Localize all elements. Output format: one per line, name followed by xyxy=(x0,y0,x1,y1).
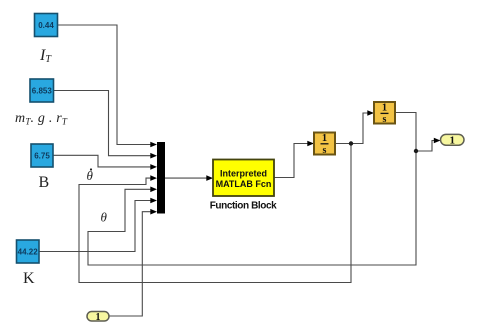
mux input arrow 4 xyxy=(150,175,157,181)
outport oval 1 xyxy=(441,134,465,146)
svg-text:θ: θ xyxy=(87,168,94,183)
junction dot on integrator2 feedback line xyxy=(414,149,418,153)
wire W6 from constant 44.22 to mux input 6 xyxy=(39,201,151,252)
svg-text:1: 1 xyxy=(96,312,101,323)
integrator U2 1/s xyxy=(374,102,395,125)
wire W8 mux output to function block xyxy=(165,177,207,179)
svg-text:θ: θ xyxy=(101,210,108,225)
arrow into integrator2 xyxy=(367,110,374,116)
constant block 6.853 xyxy=(30,79,54,102)
function block Interpreted MATLAB Fcn xyxy=(213,160,274,197)
svg-text:s: s xyxy=(383,114,387,125)
mux block xyxy=(157,142,165,214)
svg-text:MATLAB Fcn: MATLAB Fcn xyxy=(216,179,272,189)
svg-text:1: 1 xyxy=(449,135,455,147)
inport oval 1 xyxy=(87,312,109,323)
constant block 0.44 xyxy=(35,14,58,37)
mux input arrow 6 xyxy=(150,198,157,204)
svg-text:s: s xyxy=(323,145,327,156)
mux input arrow 3 xyxy=(150,164,157,170)
svg-text:mT. g . rT: mT. g . rT xyxy=(15,111,68,127)
svg-text:Function Block: Function Block xyxy=(210,201,277,212)
arrow into outport oval xyxy=(434,138,441,144)
wire W12 branch to outport oval xyxy=(416,141,435,152)
junction dot on integrator1 output xyxy=(349,141,353,145)
mux input arrow 5 xyxy=(150,187,157,193)
wire W4 theta-dot feedback from integrator1 junction to mux input 4 xyxy=(79,144,351,283)
svg-text:IT: IT xyxy=(39,47,52,65)
wire W2 from constant 6.853 to mux input 2 xyxy=(54,91,152,156)
arrow into integrator1 xyxy=(307,141,314,147)
mux input arrow 2 xyxy=(150,153,157,159)
arrow into function block xyxy=(206,175,213,181)
constant block 44.22 xyxy=(17,240,40,263)
integrator U1 1/s xyxy=(314,133,335,156)
wire W7 from inport oval to mux input 7 xyxy=(109,212,151,316)
svg-text:44.22: 44.22 xyxy=(18,248,39,257)
wire W5 theta feedback from integrator2 output to mux input 5 xyxy=(88,113,416,266)
label theta-dot xyxy=(87,168,94,183)
wire W1 from constant 0.44 to mux input 1 xyxy=(58,25,152,145)
mux input arrow 7 xyxy=(150,209,157,215)
svg-text:1: 1 xyxy=(322,133,327,144)
svg-text:Interpreted: Interpreted xyxy=(220,169,267,179)
svg-text:1: 1 xyxy=(382,102,387,113)
mux input arrow 1 xyxy=(150,142,157,148)
constant block 6.75 xyxy=(31,144,53,167)
svg-text:6.853: 6.853 xyxy=(32,87,53,96)
wire W3 from constant 6.75 to mux input 3 xyxy=(53,155,151,167)
svg-text:K: K xyxy=(23,270,35,287)
wire W10 integrator1 output to integrator2 xyxy=(336,113,369,144)
svg-text:0.44: 0.44 xyxy=(38,21,54,30)
svg-text:B: B xyxy=(39,174,50,191)
svg-text:6.75: 6.75 xyxy=(34,151,50,160)
wire W9 function block output to integrator1 xyxy=(274,144,308,178)
